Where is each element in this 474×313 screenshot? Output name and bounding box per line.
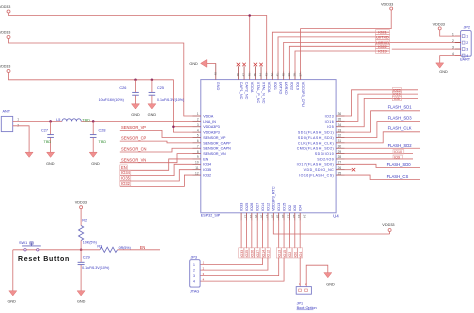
svg-text:IO0: IO0 bbox=[294, 252, 298, 258]
svg-text:ANT: ANT bbox=[3, 110, 11, 114]
svg-text:IO4: IO4 bbox=[299, 205, 303, 211]
svg-text:6: 6 bbox=[197, 139, 199, 143]
junction VDDA3P3 branch bbox=[172, 125, 175, 128]
junction C27 tap bbox=[49, 120, 52, 123]
svg-text:IO21: IO21 bbox=[273, 82, 277, 90]
wire net U0TXD from top pin bbox=[278, 37, 389, 72]
svg-text:SD3/IO10: SD3/IO10 bbox=[315, 152, 334, 156]
svg-text:IO33: IO33 bbox=[240, 203, 244, 211]
wire from right pin 31 bbox=[345, 132, 421, 143]
capacitor C25 bbox=[149, 80, 185, 104]
svg-text:17: 17 bbox=[265, 215, 269, 219]
svg-text:33: 33 bbox=[338, 128, 342, 132]
power VDD33 #2 left bbox=[0, 31, 10, 39]
wire net IO32 to pin 12 bbox=[120, 175, 193, 186]
svg-text:SENSOR_VP: SENSOR_VP bbox=[121, 125, 146, 130]
svg-text:IO23: IO23 bbox=[325, 114, 335, 118]
wire from right pin 25 (FLASH_CS) bbox=[345, 175, 421, 179]
wire from right pin 28 (IO9) bbox=[345, 158, 414, 160]
svg-text:0R(5%): 0R(5%) bbox=[119, 246, 131, 250]
svg-text:12: 12 bbox=[195, 171, 199, 175]
svg-text:UART: UART bbox=[460, 58, 471, 62]
wire net IO19 from top pin bbox=[295, 51, 390, 72]
wire to JP2 pin 3 bbox=[392, 48, 461, 50]
svg-text:SENSOR_CP: SENSOR_CP bbox=[121, 136, 147, 141]
svg-text:U0TXD: U0TXD bbox=[278, 82, 282, 95]
chip U4 bottom pins 13-24 bbox=[240, 186, 307, 221]
svg-text:GND: GND bbox=[189, 62, 198, 66]
svg-text:TBD: TBD bbox=[82, 119, 90, 123]
svg-text:C29: C29 bbox=[83, 256, 90, 260]
net label IO0 (bottom) bbox=[292, 248, 297, 258]
svg-text:41: 41 bbox=[276, 73, 280, 77]
svg-text:IO15: IO15 bbox=[282, 203, 286, 211]
svg-text:24: 24 bbox=[303, 215, 307, 219]
svg-text:1: 1 bbox=[17, 117, 19, 121]
net label IO2 (bottom) bbox=[287, 248, 292, 258]
svg-text:44: 44 bbox=[259, 73, 263, 77]
svg-text:VDD33: VDD33 bbox=[382, 223, 394, 227]
svg-text:1: 1 bbox=[466, 35, 468, 39]
svg-text:1: 1 bbox=[299, 282, 301, 286]
chip U4 right pins 36-25 bbox=[297, 112, 345, 177]
wire from right pin 27 (FLASH_SD0) bbox=[345, 164, 421, 167]
ground at JP1 bbox=[324, 273, 335, 287]
wire IO0 column to JP1 pin 1 bbox=[299, 258, 301, 287]
net label IO15 (bottom) bbox=[282, 248, 287, 258]
svg-text:GND: GND bbox=[148, 113, 157, 117]
svg-text:IO17(FLASH_SD0): IO17(FLASH_SD0) bbox=[297, 163, 335, 167]
wire net IO35 to pin 11 bbox=[120, 170, 193, 181]
svg-text:VDDA: VDDA bbox=[267, 82, 271, 93]
svg-text:18: 18 bbox=[270, 215, 274, 219]
wire JP2 pin 4 to ground bbox=[440, 56, 461, 63]
svg-text:JP3: JP3 bbox=[191, 256, 198, 260]
svg-text:3: 3 bbox=[203, 272, 205, 276]
svg-text:TBD: TBD bbox=[99, 140, 107, 144]
svg-text:IO9: IO9 bbox=[394, 156, 400, 160]
net label IO35 bbox=[120, 176, 131, 181]
net label SENSOR_VN bbox=[121, 157, 146, 162]
svg-text:39: 39 bbox=[287, 73, 291, 77]
svg-text:C26: C26 bbox=[119, 86, 126, 90]
svg-text:IO5: IO5 bbox=[327, 125, 334, 129]
svg-text:1: 1 bbox=[193, 263, 195, 267]
svg-text:10K(5%): 10K(5%) bbox=[83, 241, 97, 245]
svg-text:SENSOR_CN: SENSOR_CN bbox=[121, 147, 147, 152]
wire column bottom pin 13 bbox=[240, 221, 242, 248]
svg-text:0.1uF/6.3V(10%): 0.1uF/6.3V(10%) bbox=[157, 98, 184, 102]
svg-text:FLASH_CS: FLASH_CS bbox=[387, 174, 409, 179]
svg-text:EN: EN bbox=[121, 165, 127, 170]
chip U4 top pins 48-37 bbox=[236, 72, 305, 107]
svg-text:SD1(FLASH_SD1): SD1(FLASH_SD1) bbox=[298, 131, 334, 135]
svg-text:CAP1_NC: CAP1_NC bbox=[239, 82, 243, 100]
power VDD33 reset bbox=[75, 201, 87, 209]
svg-text:IO25: IO25 bbox=[245, 203, 249, 211]
svg-text:VDDA: VDDA bbox=[203, 114, 214, 118]
svg-text:IO33: IO33 bbox=[240, 250, 244, 258]
capacitor C29 bbox=[78, 250, 110, 291]
ground at chip pin 49 (left-pointing) bbox=[189, 60, 215, 68]
svg-text:5: 5 bbox=[197, 134, 199, 138]
svg-text:4: 4 bbox=[466, 54, 468, 58]
svg-text:IO4: IO4 bbox=[299, 252, 303, 258]
svg-text:VDDA: VDDA bbox=[250, 82, 254, 93]
connector JP1 Boot Option bbox=[296, 282, 316, 310]
svg-text:27: 27 bbox=[338, 161, 342, 165]
svg-text:23: 23 bbox=[297, 215, 301, 219]
svg-text:VDD33: VDD33 bbox=[433, 23, 445, 27]
wire column bottom pin 20 bbox=[278, 221, 280, 248]
svg-text:IO19: IO19 bbox=[378, 49, 386, 54]
svg-text:Boot Option: Boot Option bbox=[297, 306, 317, 310]
svg-text:FLASH_SD0: FLASH_SD0 bbox=[387, 162, 412, 167]
svg-text:7: 7 bbox=[197, 144, 199, 148]
wire column bottom pin 21 bbox=[283, 221, 285, 248]
net label SENSOR_VP bbox=[121, 125, 146, 130]
svg-text:2: 2 bbox=[197, 118, 199, 122]
chip U4 ESP32_SIP body bbox=[201, 80, 336, 213]
svg-text:IO16: IO16 bbox=[325, 120, 335, 124]
svg-text:IO13: IO13 bbox=[277, 250, 281, 258]
svg-text:C27: C27 bbox=[41, 128, 48, 132]
svg-text:40: 40 bbox=[281, 73, 285, 77]
net label IO23 (right) bbox=[392, 88, 401, 93]
svg-text:VDD33: VDD33 bbox=[0, 5, 10, 9]
svg-text:VDDA3P3: VDDA3P3 bbox=[203, 131, 220, 135]
wire from right pin 30 (FLASH_SD2) bbox=[345, 147, 421, 149]
svg-text:48: 48 bbox=[236, 73, 240, 77]
junction C28 tap bbox=[92, 120, 95, 123]
svg-text:XTAL_N_NC: XTAL_N_NC bbox=[261, 82, 265, 104]
svg-text:4: 4 bbox=[197, 128, 199, 132]
svg-text:CAP2_NC: CAP2_NC bbox=[244, 82, 248, 100]
svg-text:IO16(FLASH_CS): IO16(FLASH_CS) bbox=[299, 173, 334, 177]
ground below C29 bbox=[77, 291, 86, 304]
svg-text:IO26: IO26 bbox=[250, 203, 254, 211]
svg-text:U4: U4 bbox=[333, 213, 339, 218]
svg-text:46: 46 bbox=[247, 73, 251, 77]
svg-text:IO12: IO12 bbox=[266, 203, 270, 211]
net label IO25 (bottom) bbox=[244, 248, 249, 258]
svg-text:30: 30 bbox=[338, 144, 342, 148]
svg-text:2: 2 bbox=[203, 266, 205, 270]
ground for C25 bbox=[148, 104, 157, 117]
net label IO4 (bottom) bbox=[298, 248, 303, 258]
svg-text:VDD33: VDD33 bbox=[0, 31, 10, 35]
svg-text:R3: R3 bbox=[97, 244, 102, 248]
svg-text:3: 3 bbox=[197, 123, 199, 127]
resistor R2 bbox=[79, 218, 97, 244]
ground for C28 bbox=[89, 152, 100, 166]
svg-text:SD2/IO9: SD2/IO9 bbox=[317, 157, 334, 161]
net label FLASH_CS bbox=[387, 174, 409, 179]
svg-text:CMD(FLASH_SD2): CMD(FLASH_SD2) bbox=[297, 147, 334, 151]
net label FLASH_SD1 bbox=[388, 104, 413, 109]
svg-text:45: 45 bbox=[253, 73, 257, 77]
svg-text:36: 36 bbox=[338, 112, 342, 116]
net label IO21 bbox=[376, 30, 390, 35]
svg-text:JTAG: JTAG bbox=[190, 289, 199, 293]
svg-text:SENSOR_CAPN: SENSOR_CAPN bbox=[203, 147, 231, 151]
wire net IO22 from top pin bbox=[289, 46, 389, 71]
svg-text:TBD: TBD bbox=[44, 140, 52, 144]
net label SENSOR_CP bbox=[121, 136, 147, 141]
svg-text:32: 32 bbox=[338, 134, 342, 138]
svg-text:IO32: IO32 bbox=[121, 181, 131, 186]
wire net SENSOR_CP to pin 6 bbox=[120, 141, 193, 143]
chip U4 left pins 1-12 bbox=[193, 112, 232, 177]
wire net EN to pin 9 bbox=[120, 159, 193, 170]
svg-text:FLASH_SD1: FLASH_SD1 bbox=[388, 104, 413, 109]
svg-text:C25: C25 bbox=[157, 86, 164, 90]
svg-text:15: 15 bbox=[254, 215, 258, 219]
svg-text:FLASH_CLK: FLASH_CLK bbox=[388, 126, 412, 131]
connector JP3 JTAG bbox=[190, 256, 205, 294]
svg-text:IO5: IO5 bbox=[394, 97, 400, 101]
svg-text:4: 4 bbox=[203, 277, 205, 281]
net label IO32 bbox=[120, 181, 131, 186]
power VDD33 #3 left bbox=[0, 65, 10, 73]
wire VDD33#2 to pin1 VDDA bbox=[9, 39, 193, 117]
net label EN (reset) bbox=[140, 245, 146, 250]
svg-text:Reset Button: Reset Button bbox=[18, 256, 70, 263]
wire VDD33 to VDD3P3_CPU pin 37 bbox=[301, 10, 392, 72]
ground at JP2 bbox=[436, 63, 448, 74]
svg-text:IO0: IO0 bbox=[293, 205, 297, 211]
svg-text:3: 3 bbox=[193, 274, 195, 278]
svg-text:IO22: IO22 bbox=[290, 82, 294, 90]
svg-text:IO34: IO34 bbox=[203, 163, 211, 167]
svg-text:3: 3 bbox=[452, 46, 454, 50]
wire from right pin 36 bbox=[345, 90, 419, 116]
svg-text:2: 2 bbox=[466, 41, 468, 45]
wire VDD33#1 to VDDA pins 46,43 bbox=[9, 13, 267, 72]
wire VDD33 to JP2 pin 1 bbox=[440, 30, 461, 36]
svg-text:SENSOR_VP: SENSOR_VP bbox=[203, 136, 226, 140]
wire net SENSOR_VN to pin 8 bbox=[120, 154, 193, 163]
svg-text:CLK(FLASH_CLK): CLK(FLASH_CLK) bbox=[298, 141, 334, 145]
svg-text:IO26: IO26 bbox=[251, 250, 255, 258]
wire column bottom pin 14 bbox=[245, 221, 247, 248]
X mark on NC pin 26 bbox=[345, 168, 356, 171]
net label EN bbox=[120, 165, 128, 170]
svg-text:GND: GND bbox=[439, 70, 448, 74]
wire ANT pin2 to ground bbox=[13, 126, 29, 152]
ground for ANT pin2 bbox=[25, 152, 33, 157]
svg-text:0.1uF/6.3V(10%): 0.1uF/6.3V(10%) bbox=[82, 266, 109, 270]
svg-text:GND: GND bbox=[77, 300, 86, 304]
inductor L5 bbox=[56, 118, 90, 123]
svg-text:8: 8 bbox=[197, 150, 199, 154]
svg-text:IO13: IO13 bbox=[277, 203, 281, 211]
power VDD33 top-right bbox=[381, 3, 393, 10]
net label IO33 (bottom) bbox=[239, 248, 244, 258]
svg-text:2: 2 bbox=[305, 282, 307, 286]
svg-text:VDD33: VDD33 bbox=[75, 201, 87, 205]
svg-text:14: 14 bbox=[249, 215, 253, 219]
wire SW1 left to ground bbox=[12, 250, 14, 291]
svg-text:XTAL_P_NC: XTAL_P_NC bbox=[256, 82, 260, 104]
svg-text:IO12: IO12 bbox=[267, 250, 271, 258]
svg-text:2: 2 bbox=[452, 39, 454, 43]
wire JP1 pin 2 to ground bbox=[306, 265, 328, 286]
svg-text:IO14: IO14 bbox=[261, 250, 265, 258]
wire VDD33#3 rail to VDDA3P3 pins 3,4 bbox=[9, 73, 193, 133]
svg-text:VDD3P3_CPU: VDD3P3_CPU bbox=[301, 82, 305, 107]
svg-text:ESP32_SIP: ESP32_SIP bbox=[201, 214, 221, 218]
antenna connector ANT bbox=[1, 110, 19, 132]
wire net IO21 from top pin bbox=[272, 32, 389, 71]
wire IO14 to JP3 pin 1 bbox=[200, 258, 262, 265]
chip U4 refdes and value bbox=[201, 213, 340, 218]
svg-text:U0TXD: U0TXD bbox=[376, 34, 389, 39]
wire column bottom pin 17 bbox=[262, 221, 264, 248]
svg-text:3: 3 bbox=[466, 48, 468, 52]
svg-text:26: 26 bbox=[338, 166, 342, 170]
svg-text:2: 2 bbox=[193, 269, 195, 273]
svg-text:28: 28 bbox=[338, 155, 342, 159]
junction on VDD33 rail at pin46 bbox=[248, 14, 251, 17]
net label IO34 bbox=[120, 170, 131, 175]
svg-text:29: 29 bbox=[338, 150, 342, 154]
svg-text:IO27: IO27 bbox=[256, 203, 260, 211]
svg-text:IO25: IO25 bbox=[245, 250, 249, 258]
svg-text:16: 16 bbox=[260, 215, 264, 219]
svg-text:13: 13 bbox=[244, 215, 248, 219]
svg-text:37: 37 bbox=[298, 73, 302, 77]
svg-text:IO27: IO27 bbox=[256, 250, 260, 258]
wire VDD3P3_RTC pin19 to VDD33 bbox=[273, 221, 389, 234]
svg-text:VDD_SDIO_NC: VDD_SDIO_NC bbox=[304, 168, 335, 172]
wire net SENSOR_CN to pin 7 bbox=[120, 148, 193, 152]
wire column bottom pin 16 bbox=[256, 221, 258, 248]
svg-text:IO14: IO14 bbox=[261, 203, 265, 211]
text Reset Button bbox=[18, 256, 70, 263]
wire column bottom pin 15 bbox=[251, 221, 253, 248]
wire IO12 to JP3 pin 2 bbox=[200, 258, 268, 270]
net label IO10 bbox=[393, 150, 404, 155]
net label FLASH_SD0 bbox=[387, 162, 412, 167]
wire ANT pin1 to LNA_IN (through L5) bbox=[13, 120, 193, 122]
net label IO14 (bottom) bbox=[260, 248, 265, 258]
svg-text:34: 34 bbox=[338, 123, 342, 127]
wire column bottom pin 18 bbox=[267, 221, 269, 248]
svg-text:49: 49 bbox=[213, 72, 217, 76]
wire net SENSOR_VP to pin 5 bbox=[120, 130, 193, 137]
wire from right pin 33 bbox=[345, 111, 421, 132]
svg-text:C28: C28 bbox=[99, 128, 106, 132]
svg-text:GND: GND bbox=[7, 300, 16, 304]
net label IO26 (bottom) bbox=[249, 248, 254, 258]
wire from right pin 35 bbox=[345, 94, 419, 121]
svg-text:LNA_IN: LNA_IN bbox=[203, 120, 216, 124]
svg-text:GND: GND bbox=[46, 162, 55, 166]
svg-text:SENSOR_VN: SENSOR_VN bbox=[121, 157, 146, 162]
svg-text:35: 35 bbox=[338, 118, 342, 122]
svg-text:SD0(FLASH_SD3): SD0(FLASH_SD3) bbox=[298, 136, 334, 140]
svg-text:IO35: IO35 bbox=[121, 176, 131, 181]
wire R3 to EN bbox=[81, 249, 160, 251]
wire net U0RXD from top pin bbox=[284, 42, 461, 71]
svg-text:20: 20 bbox=[281, 215, 285, 219]
svg-text:22: 22 bbox=[292, 215, 296, 219]
wire VDD33 to R2 bbox=[80, 209, 82, 226]
svg-text:31: 31 bbox=[338, 139, 342, 143]
svg-text:FLASH_SD3: FLASH_SD3 bbox=[388, 115, 413, 120]
wire IO15 to JP3 pin 4 bbox=[200, 258, 284, 281]
svg-text:IO10: IO10 bbox=[394, 150, 402, 154]
svg-text:EN: EN bbox=[140, 245, 146, 250]
svg-text:9: 9 bbox=[197, 155, 199, 159]
capacitor C27 bbox=[41, 121, 54, 152]
wire R2 to EN node bbox=[80, 241, 82, 250]
svg-text:IO35: IO35 bbox=[203, 168, 211, 172]
net label U0TXD bbox=[376, 34, 390, 39]
svg-text:R2: R2 bbox=[82, 218, 87, 222]
net label IO19 bbox=[376, 49, 390, 54]
svg-text:L5: L5 bbox=[56, 118, 60, 122]
svg-text:19: 19 bbox=[276, 215, 280, 219]
net label FLASH_CLK bbox=[388, 126, 412, 131]
resistor R3 bbox=[97, 244, 130, 252]
net label IO18 (right) bbox=[392, 92, 401, 97]
power VDD33 bottom-right bbox=[382, 223, 394, 234]
svg-text:JP2: JP2 bbox=[464, 26, 471, 30]
svg-text:1: 1 bbox=[197, 112, 199, 116]
wire column bottom pin 22 bbox=[288, 221, 290, 248]
svg-text:43: 43 bbox=[264, 73, 268, 77]
net label IO13 (bottom) bbox=[276, 248, 281, 258]
net label FLASH_SD2 bbox=[388, 143, 413, 148]
power VDD33 at JP2 pin1 bbox=[433, 23, 445, 30]
svg-text:47: 47 bbox=[242, 73, 246, 77]
wire IO13 to JP3 pin 3 bbox=[200, 258, 279, 276]
svg-text:SW1: SW1 bbox=[19, 241, 27, 245]
svg-text:IO34: IO34 bbox=[121, 170, 131, 175]
svg-text:10: 10 bbox=[195, 161, 199, 165]
wire column bottom pin 23 bbox=[294, 221, 296, 248]
wire from right pin 34 bbox=[345, 98, 419, 126]
svg-text:IO19: IO19 bbox=[295, 82, 299, 90]
net label IO9 bbox=[393, 155, 402, 160]
svg-text:GND: GND bbox=[131, 113, 140, 117]
wire from right pin 32 bbox=[345, 122, 421, 138]
ground for C26 bbox=[131, 104, 140, 117]
wire net IO34 to pin 10 bbox=[120, 164, 193, 175]
svg-text:11: 11 bbox=[195, 166, 199, 170]
net label IO22 bbox=[376, 44, 390, 49]
junction C25 tap bbox=[151, 79, 154, 82]
wire from right pin 29 (IO10) bbox=[345, 153, 414, 155]
net label IO5 (right) bbox=[392, 96, 401, 101]
junction EN node bbox=[80, 249, 83, 252]
svg-text:GND: GND bbox=[326, 283, 335, 287]
svg-text:U0RXD: U0RXD bbox=[284, 82, 288, 95]
ground for C27 bbox=[46, 152, 55, 166]
svg-text:SENSOR_VN: SENSOR_VN bbox=[203, 152, 226, 156]
svg-text:2: 2 bbox=[17, 123, 19, 127]
X marks on NC pins 48,47,45,44 bbox=[237, 63, 263, 72]
svg-text:EN: EN bbox=[203, 157, 208, 161]
switch SW1 bbox=[13, 241, 81, 251]
svg-text:IO32: IO32 bbox=[203, 173, 211, 177]
net label IO12 (bottom) bbox=[266, 248, 271, 258]
svg-text:FLASH_SD2: FLASH_SD2 bbox=[388, 143, 413, 148]
svg-text:IO2: IO2 bbox=[288, 205, 292, 211]
svg-text:VDD3P3_RTC: VDD3P3_RTC bbox=[272, 186, 276, 211]
